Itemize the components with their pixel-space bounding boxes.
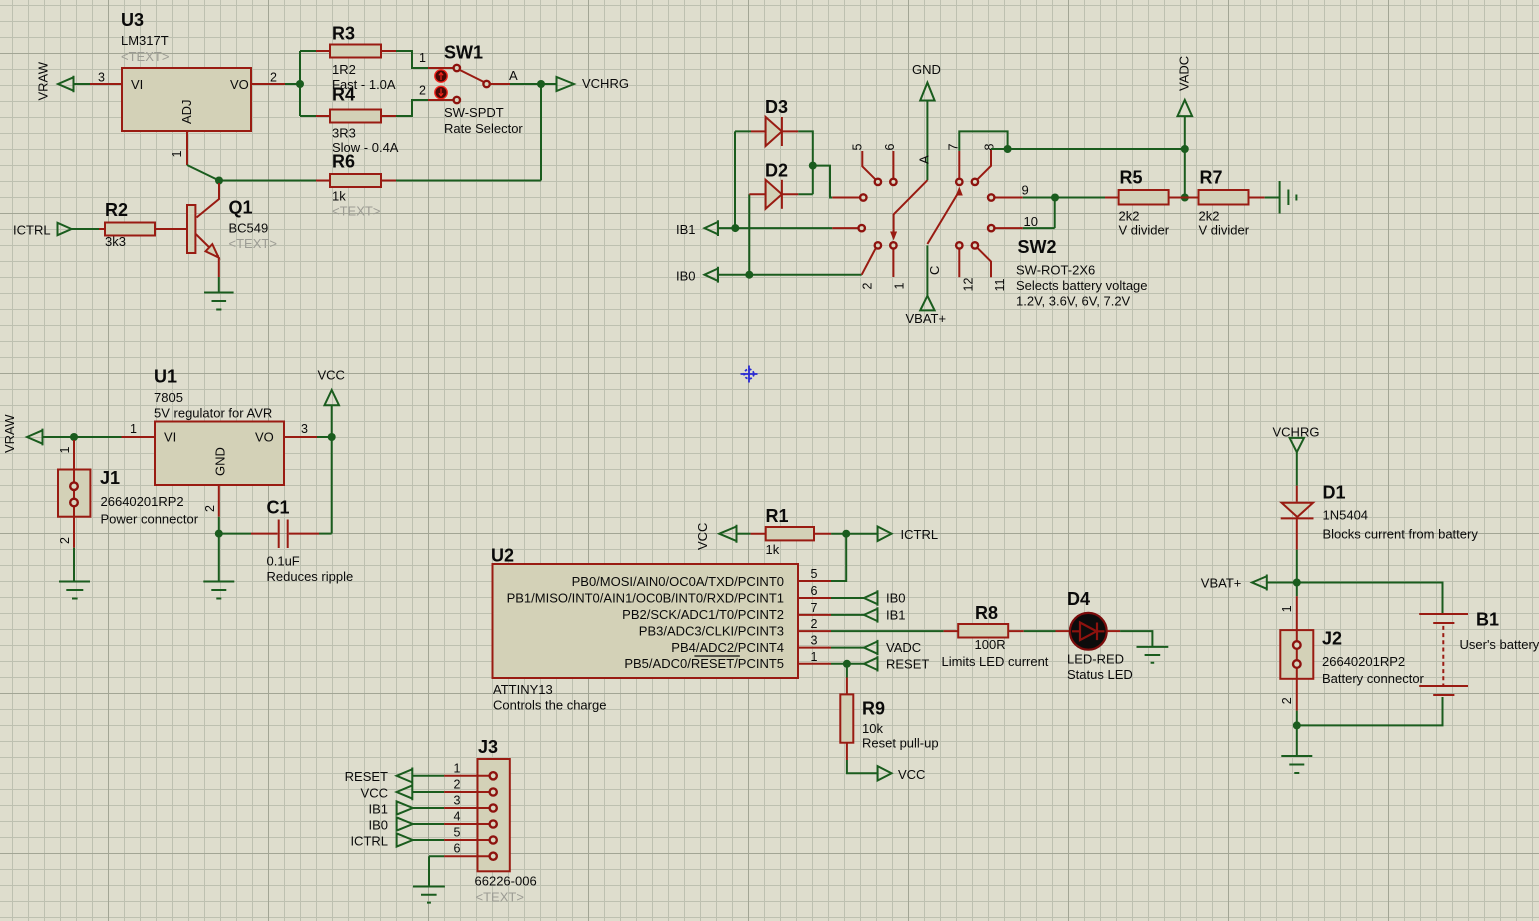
svg-text:IB1: IB1 — [886, 607, 906, 622]
svg-text:1: 1 — [58, 447, 72, 454]
svg-text:3: 3 — [301, 422, 308, 436]
svg-text:100R: 100R — [975, 637, 1006, 652]
svg-text:1k: 1k — [332, 189, 346, 204]
svg-text:5: 5 — [811, 567, 818, 581]
svg-text:7805: 7805 — [154, 390, 183, 405]
svg-text:J1: J1 — [100, 468, 120, 488]
svg-text:5: 5 — [851, 144, 865, 151]
svg-text:R6: R6 — [332, 152, 355, 172]
svg-text:3k3: 3k3 — [105, 234, 126, 249]
svg-text:7: 7 — [811, 601, 818, 615]
svg-text:ICTRL: ICTRL — [350, 833, 388, 848]
svg-text:VCHRG: VCHRG — [582, 76, 629, 91]
svg-text:V divider: V divider — [1199, 223, 1250, 238]
svg-text:R7: R7 — [1200, 168, 1223, 188]
svg-text:PB2/SCK/ADC1/T0/PCINT2: PB2/SCK/ADC1/T0/PCINT2 — [622, 607, 784, 622]
svg-text:Status LED: Status LED — [1067, 667, 1133, 682]
svg-text:<TEXT>: <TEXT> — [332, 204, 380, 219]
svg-text:R2: R2 — [105, 200, 128, 220]
svg-text:VADC: VADC — [1177, 56, 1192, 91]
svg-text:1k: 1k — [766, 542, 780, 557]
svg-text:IB0: IB0 — [676, 269, 696, 284]
svg-text:RESET: RESET — [345, 769, 388, 784]
svg-text:VCC: VCC — [695, 523, 710, 550]
svg-text:<TEXT>: <TEXT> — [229, 236, 277, 251]
svg-text:6: 6 — [454, 842, 461, 856]
svg-text:3: 3 — [454, 794, 461, 808]
svg-text:VBAT+: VBAT+ — [906, 311, 947, 326]
svg-text:3: 3 — [811, 634, 818, 648]
svg-text:26640201RP2: 26640201RP2 — [1322, 654, 1405, 669]
svg-text:1: 1 — [454, 761, 461, 775]
svg-text:R9: R9 — [862, 699, 885, 719]
svg-text:2k2: 2k2 — [1199, 209, 1220, 224]
svg-text:C: C — [927, 266, 942, 275]
svg-text:<TEXT>: <TEXT> — [476, 889, 524, 904]
svg-text:J3: J3 — [478, 737, 498, 757]
svg-text:VI: VI — [131, 77, 143, 92]
svg-text:1: 1 — [170, 151, 184, 158]
svg-text:V divider: V divider — [1119, 223, 1170, 238]
svg-text:D2: D2 — [765, 161, 788, 181]
svg-text:VCC: VCC — [898, 767, 925, 782]
svg-text:2: 2 — [861, 283, 875, 290]
svg-text:SW-ROT-2X6: SW-ROT-2X6 — [1016, 263, 1095, 278]
svg-text:PB1/MISO/INT0/AIN1/OC0B/INT0/R: PB1/MISO/INT0/AIN1/OC0B/INT0/RXD/PCINT1 — [507, 591, 784, 606]
svg-text:2: 2 — [270, 71, 277, 85]
svg-text:Controls the charge: Controls the charge — [493, 698, 606, 713]
svg-text:Selects battery voltage: Selects battery voltage — [1016, 278, 1148, 293]
svg-text:Power connector: Power connector — [101, 512, 199, 527]
svg-text:PB3/ADC3/CLKI/PCINT3: PB3/ADC3/CLKI/PCINT3 — [639, 624, 784, 639]
svg-text:SW-SPDT: SW-SPDT — [444, 105, 504, 120]
svg-text:LM317T: LM317T — [121, 33, 169, 48]
svg-text:ICTRL: ICTRL — [13, 223, 51, 238]
svg-text:IB0: IB0 — [368, 817, 388, 832]
svg-text:VCC: VCC — [361, 785, 388, 800]
svg-text:2: 2 — [454, 778, 461, 792]
svg-text:A: A — [509, 68, 518, 83]
svg-text:3: 3 — [98, 71, 105, 85]
svg-text:1N5404: 1N5404 — [1323, 508, 1369, 523]
svg-text:User's battery: User's battery — [1460, 637, 1539, 652]
svg-text:2: 2 — [203, 505, 217, 512]
svg-text:R3: R3 — [332, 24, 355, 44]
svg-text:2: 2 — [419, 84, 426, 98]
svg-text:Blocks current from battery: Blocks current from battery — [1323, 527, 1479, 542]
svg-text:D1: D1 — [1323, 483, 1346, 503]
svg-text:B1: B1 — [1476, 610, 1499, 630]
svg-text:2: 2 — [811, 617, 818, 631]
svg-text:5: 5 — [454, 826, 461, 840]
svg-text:SW1: SW1 — [444, 43, 483, 63]
svg-text:VRAW: VRAW — [36, 61, 51, 100]
svg-text:BC549: BC549 — [229, 221, 269, 236]
svg-text:ICTRL: ICTRL — [901, 527, 939, 542]
svg-text:U1: U1 — [154, 367, 177, 387]
svg-text:1: 1 — [893, 283, 907, 290]
svg-text:U2: U2 — [491, 546, 514, 566]
svg-text:R5: R5 — [1120, 168, 1143, 188]
svg-text:3R3: 3R3 — [332, 126, 356, 141]
svg-text:Reduces ripple: Reduces ripple — [267, 569, 354, 584]
svg-text:ATTINY13: ATTINY13 — [493, 682, 553, 697]
svg-text:Limits LED current: Limits LED current — [942, 654, 1049, 669]
svg-text:C1: C1 — [267, 498, 290, 518]
svg-text:PB0/MOSI/AIN0/OC0A/TXD/PCINT0: PB0/MOSI/AIN0/OC0A/TXD/PCINT0 — [572, 574, 784, 589]
svg-text:R1: R1 — [766, 506, 789, 526]
svg-text:U3: U3 — [121, 10, 144, 30]
svg-text:<TEXT>: <TEXT> — [121, 49, 169, 64]
svg-text:R8: R8 — [975, 603, 998, 623]
svg-text:D3: D3 — [765, 97, 788, 117]
svg-text:9: 9 — [1022, 183, 1029, 198]
svg-text:A: A — [917, 155, 932, 164]
svg-text:10: 10 — [1024, 214, 1038, 229]
svg-text:1: 1 — [811, 650, 818, 664]
svg-text:4: 4 — [454, 810, 461, 824]
svg-text:VO: VO — [230, 77, 249, 92]
svg-text:VO: VO — [255, 430, 274, 445]
svg-text:LED-RED: LED-RED — [1067, 651, 1124, 666]
svg-text:12: 12 — [962, 278, 976, 292]
svg-text:0.1uF: 0.1uF — [267, 554, 300, 569]
svg-text:D4: D4 — [1067, 589, 1090, 609]
svg-text:10k: 10k — [862, 721, 883, 736]
svg-text:Battery connector: Battery connector — [1322, 671, 1425, 686]
svg-text:1: 1 — [419, 51, 426, 65]
svg-text:GND: GND — [213, 447, 228, 476]
svg-text:IB0: IB0 — [886, 591, 906, 606]
svg-text:6: 6 — [811, 584, 818, 598]
svg-text:SW2: SW2 — [1018, 237, 1057, 257]
svg-text:Rate Selector: Rate Selector — [444, 121, 523, 136]
svg-text:5V regulator for AVR: 5V regulator for AVR — [154, 406, 272, 421]
svg-text:VBAT+: VBAT+ — [1201, 576, 1242, 591]
svg-text:PB4/ADC2/PCINT4: PB4/ADC2/PCINT4 — [671, 640, 784, 655]
svg-text:1.2V, 3.6V, 6V, 7.2V: 1.2V, 3.6V, 6V, 7.2V — [1016, 294, 1131, 309]
svg-text:PB5/ADC0/RESET/PCINT5: PB5/ADC0/RESET/PCINT5 — [624, 656, 784, 671]
svg-text:Reset pull-up: Reset pull-up — [862, 736, 939, 751]
svg-text:VRAW: VRAW — [2, 414, 17, 453]
svg-text:2: 2 — [1280, 697, 1294, 704]
svg-text:VADC: VADC — [886, 640, 921, 655]
svg-text:R4: R4 — [332, 85, 355, 105]
svg-text:ADJ: ADJ — [179, 99, 194, 124]
svg-text:1: 1 — [130, 422, 137, 436]
svg-text:J2: J2 — [1322, 629, 1342, 649]
svg-text:GND: GND — [912, 62, 941, 77]
svg-text:VI: VI — [164, 430, 176, 445]
svg-text:11: 11 — [993, 278, 1007, 291]
svg-text:2k2: 2k2 — [1119, 209, 1140, 224]
svg-text:IB1: IB1 — [676, 222, 696, 237]
svg-text:IB1: IB1 — [368, 801, 388, 816]
svg-text:6: 6 — [883, 144, 897, 151]
svg-text:VCC: VCC — [318, 368, 345, 383]
svg-text:2: 2 — [58, 537, 72, 544]
svg-text:26640201RP2: 26640201RP2 — [101, 494, 184, 509]
svg-text:66226-006: 66226-006 — [475, 873, 537, 888]
svg-text:1R2: 1R2 — [332, 62, 356, 77]
svg-text:1: 1 — [1280, 605, 1294, 612]
svg-text:Q1: Q1 — [229, 198, 253, 218]
svg-text:RESET: RESET — [886, 656, 929, 671]
